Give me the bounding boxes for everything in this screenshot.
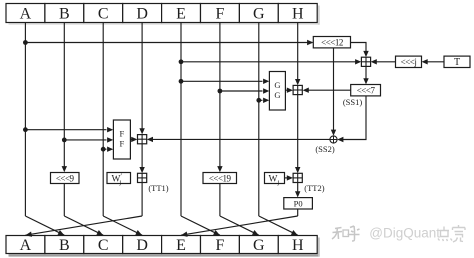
output register D [123, 236, 162, 255]
wire T to rotj [422, 59, 445, 64]
svg-text:F: F [120, 128, 125, 138]
wire FF adder to W' adder [139, 144, 144, 173]
rotate-left-7 box [351, 85, 381, 96]
wire C to FF input [103, 147, 113, 152]
rotate-left-19 box [203, 173, 237, 184]
wire F to GG input [220, 88, 269, 93]
svg-text:(TT1): (TT1) [148, 183, 168, 193]
input register E [162, 4, 201, 23]
wire TT1 to new A diagonal [25, 183, 142, 237]
wire B column vertical [62, 23, 67, 173]
svg-text:<<<9: <<<9 [56, 173, 75, 183]
adder node after GG [293, 85, 302, 94]
wire E to GG input [181, 79, 269, 84]
wire E column vertical [180, 23, 182, 217]
junction E to adder [179, 59, 184, 64]
svg-text:H: H [292, 5, 304, 22]
wire SS2 to FF adder [147, 137, 330, 142]
output register H [278, 236, 317, 255]
watermark zhihu digquant [332, 225, 465, 242]
svg-text:<<<j: <<<j [401, 57, 417, 67]
rotate-left-9 box [51, 173, 80, 184]
svg-text:<<<19: <<<19 [209, 173, 232, 183]
input register A [6, 4, 45, 23]
adder node after FF [138, 135, 147, 144]
label SS1 [343, 97, 363, 107]
wire adder to rot7 [363, 66, 368, 84]
wire A column vertical [24, 23, 26, 217]
label SS2 [315, 144, 335, 154]
svg-text:A: A [20, 237, 32, 254]
wire G column vertical [258, 23, 260, 217]
adder node TT1 [138, 173, 147, 182]
svg-text:F: F [120, 138, 125, 148]
adder node SS1 sum [361, 57, 370, 66]
wire W to adder TT2 [285, 175, 294, 180]
xor node SS2 [330, 136, 337, 143]
svg-text:T: T [454, 57, 460, 68]
permutation P0 box [284, 198, 313, 209]
wire SS1 down to xor [337, 96, 366, 142]
svg-text:@DigQuant: @DigQuant [369, 225, 440, 240]
wire C column vertical [102, 23, 104, 217]
svg-text:G: G [253, 237, 265, 254]
wire E to adder horizontal [181, 59, 361, 64]
wire W adder to P0 [295, 183, 300, 198]
wire G to new H diagonal [259, 216, 298, 235]
constant T box [444, 56, 470, 68]
svg-text:P0: P0 [294, 198, 303, 208]
message word W box [265, 173, 285, 187]
input register B [45, 4, 84, 23]
wire C to new D diagonal [103, 216, 142, 235]
wire GG to adder [285, 88, 293, 93]
output register A [6, 236, 45, 255]
svg-text:G: G [253, 5, 265, 22]
svg-text:D: D [136, 5, 148, 22]
wire A to new B diagonal [25, 216, 64, 235]
rotate-left-12 box [313, 37, 350, 48]
adder node TT2 [293, 173, 302, 182]
wire E to new F diagonal [181, 216, 220, 235]
svg-text:E: E [176, 5, 186, 22]
junction G to GG [256, 98, 261, 103]
boolean function FF box [113, 120, 130, 159]
wire rotj to adder [371, 59, 396, 64]
svg-text:B: B [59, 5, 70, 22]
svg-text:(SS2): (SS2) [315, 144, 335, 154]
input register G [239, 4, 278, 23]
svg-text:C: C [98, 5, 109, 22]
wire rot19 to new G diagonal [220, 184, 259, 236]
junction A to FF [23, 127, 28, 132]
input register F [201, 4, 240, 23]
svg-text:(SS1): (SS1) [343, 97, 363, 107]
label TT1 [148, 183, 168, 193]
label TT2 [304, 183, 324, 193]
svg-text:<<<12: <<<12 [321, 38, 343, 48]
svg-text:H: H [292, 237, 304, 254]
wire rot12 to adder [351, 43, 369, 58]
wire GG adder to W adder [295, 95, 300, 174]
input register C [84, 4, 123, 23]
wire F column vertical [217, 23, 222, 173]
wire A to FF input [25, 127, 113, 132]
svg-text:G: G [274, 80, 280, 90]
junction F to GG [218, 89, 223, 94]
svg-text:B: B [59, 237, 70, 254]
rotate-left-j box [396, 56, 422, 67]
svg-text:E: E [176, 237, 186, 254]
output register E [162, 236, 201, 255]
wire rot12 down to xor [331, 48, 336, 136]
svg-text:A: A [20, 5, 32, 22]
wire B to FF input [64, 137, 113, 142]
junction A to rot12 [23, 40, 28, 45]
wire SS1 to GG adder [303, 88, 351, 93]
output register C [84, 236, 123, 255]
wire H column to GG adder [295, 23, 300, 86]
svg-text:(TT2): (TT2) [304, 183, 324, 193]
svg-text:<<<7: <<<7 [357, 86, 376, 96]
output register G [239, 236, 278, 255]
wire P0 to new E diagonal [181, 209, 298, 237]
svg-text:F: F [215, 5, 224, 22]
output register F [201, 236, 240, 255]
junction B to FF [62, 138, 67, 143]
wire G to GG input [259, 98, 270, 103]
input register H [278, 4, 317, 23]
svg-text:W′j: W′j [112, 172, 123, 186]
junction C to FF [101, 147, 106, 152]
wire FF to adder [130, 137, 137, 142]
svg-text:G: G [274, 90, 280, 100]
svg-text:F: F [215, 237, 224, 254]
svg-text:C: C [98, 237, 109, 254]
input register D [123, 4, 162, 23]
message word W' box [107, 172, 131, 186]
boolean function GG box [269, 72, 285, 111]
junction E to GG [179, 79, 184, 84]
wire rot9 to new C diagonal [64, 184, 103, 236]
output register B [45, 236, 84, 255]
wire A to rot12 horizontal [25, 40, 313, 45]
svg-text:D: D [136, 237, 148, 254]
wire D column to FF adder [139, 23, 144, 135]
bottom row shadow [9, 238, 320, 257]
top row shadow [9, 6, 320, 25]
